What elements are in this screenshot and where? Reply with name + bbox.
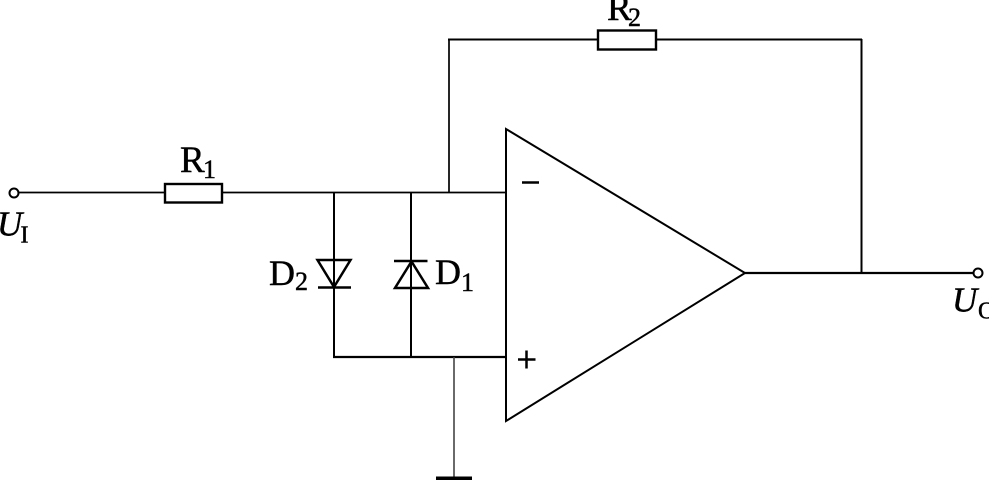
label R2 <box>607 0 641 32</box>
wire R1 to op-amp inverting input <box>222 192 506 194</box>
input terminal circle <box>10 189 19 198</box>
wire feedback left vertical <box>448 39 450 193</box>
wire input to R1 <box>19 192 165 194</box>
wire bottom from D2 to op-amp non-inverting input <box>333 356 506 358</box>
label D1 <box>435 252 474 297</box>
diode D2 wire <box>333 192 335 357</box>
wire op-amp output <box>745 272 973 274</box>
wire top left to R2 <box>448 39 598 41</box>
svg-text:D: D <box>435 252 461 292</box>
svg-text:R: R <box>180 140 205 181</box>
svg-text:U: U <box>952 281 980 320</box>
wire R2 to right vertical <box>656 39 862 41</box>
svg-text:1: 1 <box>203 155 216 184</box>
op-amp minus pin <box>522 181 539 183</box>
svg-text:D: D <box>269 253 295 293</box>
resistor R1 <box>165 184 222 203</box>
resistor R2 <box>598 31 656 50</box>
ground <box>436 477 472 480</box>
wire feedback right vertical <box>861 39 863 273</box>
svg-text:O: O <box>978 299 989 325</box>
diode D1 <box>394 261 428 288</box>
op-amp U1 <box>506 129 745 421</box>
svg-text:1: 1 <box>461 268 474 297</box>
svg-text:2: 2 <box>628 3 641 32</box>
label U_I <box>0 205 29 249</box>
wire ground drop <box>453 357 455 477</box>
op-amp plus pin <box>518 351 536 369</box>
label U_O <box>952 281 989 325</box>
svg-text:2: 2 <box>295 267 308 296</box>
label D2 <box>269 253 308 296</box>
output terminal circle <box>974 269 983 278</box>
label R1 <box>180 140 216 184</box>
diode D2 <box>318 260 352 288</box>
diode D1 wire <box>410 192 412 357</box>
svg-text:I: I <box>21 223 29 249</box>
